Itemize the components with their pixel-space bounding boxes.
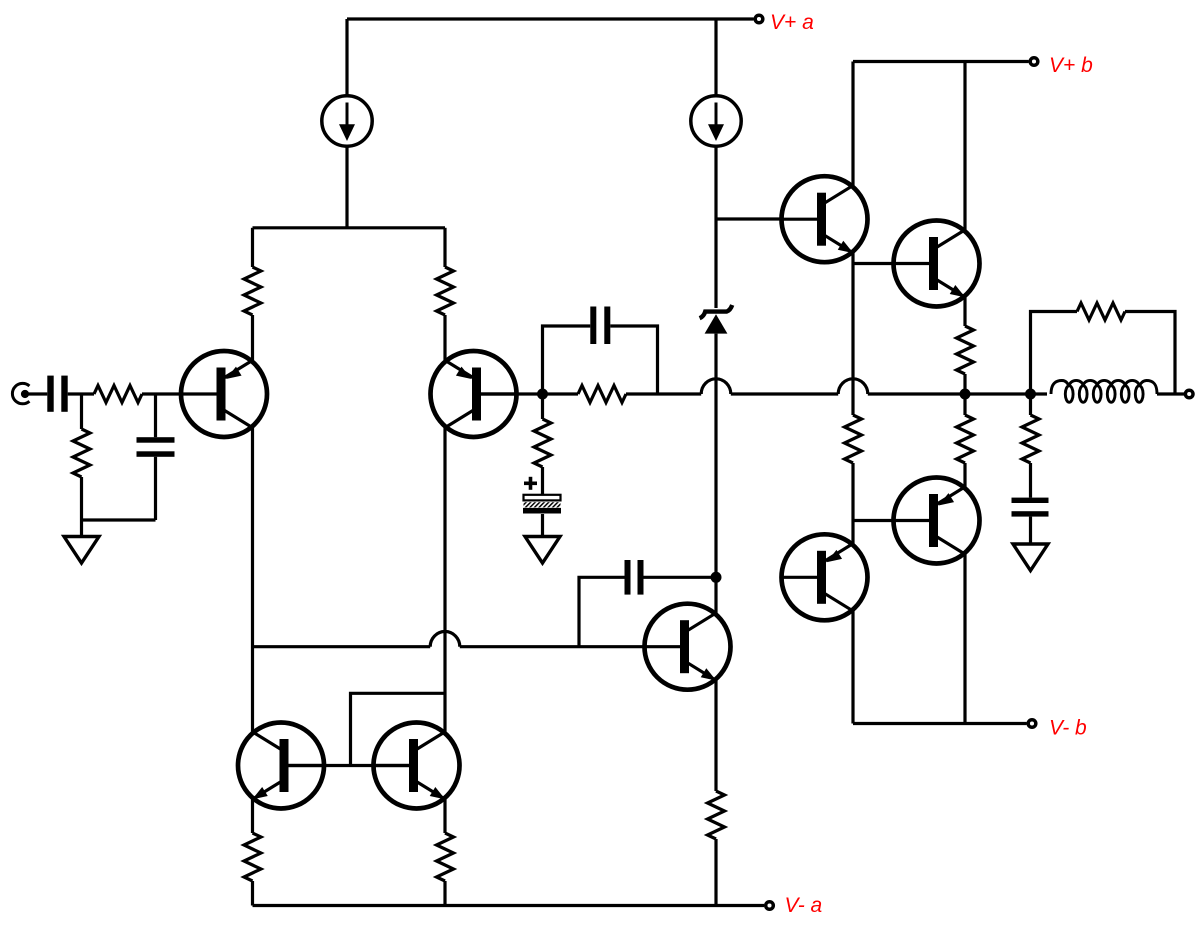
transistor Q4 bbox=[893, 221, 980, 307]
resistor R2 bbox=[437, 267, 454, 315]
transistor Q9 bbox=[373, 723, 460, 809]
wire mirror output to VAS base bbox=[253, 645, 431, 648]
resistor R3 bbox=[94, 386, 142, 403]
capacitor C6 bbox=[1012, 498, 1049, 503]
wire V+a rail bbox=[347, 17, 754, 20]
wire Q6 collector to V-b rail bbox=[851, 611, 854, 724]
wire C1 to node A bbox=[68, 392, 94, 395]
wire Q7 base to C5 bbox=[579, 577, 625, 646]
wire output node to R12 bbox=[963, 394, 966, 415]
wire C6 to ground bbox=[1029, 517, 1032, 544]
wire V-a rail bbox=[253, 904, 765, 907]
wire V+a to current source I2 bbox=[714, 19, 717, 95]
wire node B to C2 bbox=[154, 394, 157, 437]
wire V+b rail bbox=[853, 60, 1029, 63]
wire R9 to V-a rail bbox=[714, 839, 717, 906]
transistor Q2 bbox=[431, 351, 518, 437]
wire Q4 emitter bbox=[963, 297, 966, 326]
wire C4 to ground bbox=[541, 514, 544, 537]
wire V+a to current source I1 bbox=[345, 19, 348, 95]
wire to Q7 base bbox=[460, 645, 645, 648]
wire hop over bias line bbox=[838, 379, 868, 394]
transistor Q6 bbox=[781, 534, 868, 620]
current source I1 bbox=[322, 96, 372, 146]
wire L1 to output terminal bbox=[1157, 392, 1184, 395]
wire output node down bbox=[1029, 394, 1032, 415]
wire Q9 emitter bbox=[443, 799, 446, 833]
wire R5 to V-a rail bbox=[251, 881, 254, 906]
resistor R13 bbox=[1077, 303, 1125, 320]
wire between hops bbox=[731, 392, 838, 395]
terminal V+ b bbox=[1030, 58, 1038, 66]
wire R1 to Q1 emitter bbox=[251, 315, 254, 360]
wire R8 to C4 bbox=[541, 467, 544, 496]
wire to R13 bbox=[1031, 312, 1078, 395]
resistor R10 bbox=[845, 415, 862, 463]
wire V-b rail bbox=[853, 722, 1027, 725]
capacitor C2 bbox=[137, 437, 175, 443]
input jack J1 bbox=[12, 383, 29, 403]
capacitor C3 bbox=[590, 307, 596, 345]
wire V+b to Q4 collector bbox=[963, 62, 966, 231]
svg-text:V+ b: V+ b bbox=[1049, 54, 1093, 77]
wire Q1 collector to mirror bbox=[251, 427, 254, 732]
wire feedback node down bbox=[541, 394, 544, 419]
wire R7 to hop bbox=[626, 392, 701, 395]
resistor R5 bbox=[244, 833, 261, 881]
ground GND2 bbox=[525, 537, 560, 564]
wire to Q4 base bbox=[853, 262, 894, 265]
wire node A down bbox=[80, 394, 83, 429]
wire I2 down to zener bbox=[714, 147, 717, 308]
resistor R12 bbox=[957, 415, 974, 463]
wire zener to VAS collector bbox=[714, 334, 717, 613]
current source I2 bbox=[691, 96, 741, 146]
resistor R11 bbox=[957, 326, 974, 374]
wire output rail bbox=[868, 392, 1047, 395]
junction feedback node bbox=[537, 389, 548, 400]
wire R4 to ground bbox=[80, 477, 83, 537]
wire J1 to C1 bbox=[27, 392, 47, 395]
transistor Q8 bbox=[238, 723, 325, 809]
wire to Q3 base bbox=[716, 217, 782, 220]
resistor R6 bbox=[437, 833, 454, 881]
wire R12 to Q5 emitter bbox=[963, 463, 966, 487]
resistor R1 bbox=[244, 267, 261, 315]
junction VAS collector node bbox=[711, 572, 722, 583]
capacitor C4 bbox=[524, 495, 561, 501]
wire V+b to Q3 collector bbox=[851, 62, 854, 186]
terminal output bbox=[1185, 390, 1193, 398]
svg-text:V+ a: V+ a bbox=[770, 11, 814, 34]
ground GND3 bbox=[1013, 544, 1048, 571]
zener diode D1 bbox=[700, 305, 733, 318]
svg-text:V- a: V- a bbox=[785, 894, 823, 917]
wire Q3 emitter / bias line bbox=[851, 253, 854, 415]
wire C3 to rail bbox=[610, 326, 657, 394]
transistor Q3 bbox=[781, 176, 868, 262]
wire Q8-Q9 base link bbox=[284, 764, 413, 767]
wire Q2 base to R7 bbox=[477, 392, 578, 395]
transistor Q7 bbox=[644, 604, 731, 690]
resistor R7 bbox=[578, 386, 626, 403]
capacitor C4 polarity bbox=[524, 481, 537, 485]
wire R11 to output rail bbox=[963, 374, 966, 394]
junction output node 1 bbox=[960, 389, 971, 400]
wire to resistor R1 bbox=[251, 228, 254, 267]
capacitor C1 bbox=[47, 376, 53, 412]
transistor Q1 bbox=[181, 351, 268, 437]
resistor R14 bbox=[1022, 415, 1039, 463]
wire Q2 collector to mirror bbox=[443, 427, 446, 732]
terminal V- b bbox=[1028, 720, 1036, 728]
wire hop over Q2 collector line bbox=[430, 632, 460, 647]
wire mirror base tie bbox=[351, 693, 446, 765]
wire R13 to output bbox=[1125, 312, 1175, 395]
resistor R9 bbox=[708, 791, 725, 839]
wire Q5 collector to V-b rail bbox=[963, 554, 966, 724]
terminal V- a bbox=[766, 902, 774, 910]
wire feedback node to C3 bbox=[543, 326, 591, 394]
resistor R8 bbox=[534, 419, 551, 467]
ground GND1 bbox=[64, 537, 99, 564]
terminal V+ a bbox=[755, 15, 763, 23]
junction output node 2 bbox=[1025, 389, 1036, 400]
wire C5 to VAS collector node bbox=[644, 576, 717, 579]
inductor L1 bbox=[1065, 386, 1073, 403]
wire to resistor R2 bbox=[443, 228, 446, 267]
capacitor C5 bbox=[625, 560, 631, 595]
wire R6 to V-a rail bbox=[443, 881, 446, 906]
wire R2 to Q2 emitter bbox=[443, 315, 446, 360]
wire Q8 emitter bbox=[251, 799, 254, 833]
svg-text:V- b: V- b bbox=[1049, 717, 1087, 740]
wire Q7 emitter down bbox=[714, 681, 717, 792]
wire bias line to Q6 emitter bbox=[851, 463, 854, 544]
resistor R4 bbox=[73, 429, 90, 477]
wire hop over VAS collector line bbox=[701, 379, 731, 394]
wire I1 to diff-pair rail bbox=[345, 147, 348, 228]
wire R3 to Q1 base bbox=[142, 392, 182, 395]
wire R14 to C6 bbox=[1029, 463, 1032, 498]
transistor Q5 bbox=[893, 478, 980, 564]
wire to Q5 base bbox=[853, 519, 894, 522]
wire diff-pair top rail bbox=[253, 226, 446, 229]
wire C2 to link bbox=[154, 457, 157, 520]
wire C2 bottom link bbox=[82, 518, 156, 521]
